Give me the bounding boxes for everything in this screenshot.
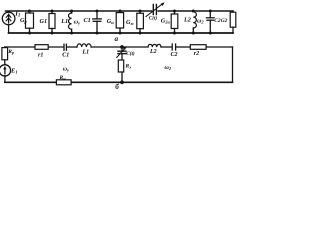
- resistor G2 (right edge): [230, 11, 236, 33]
- svg-text:E1: E1: [10, 68, 18, 75]
- resistor Gvx: [137, 11, 144, 33]
- wire top after L1 to L2: [91, 46, 148, 48]
- svg-text:C(t): C(t): [149, 15, 158, 22]
- wire top (bottom circuit) left: [5, 46, 35, 48]
- svg-text:r1: r1: [38, 52, 43, 58]
- capacitor C2 (shunt): [207, 11, 215, 33]
- resistor Gn: [116, 11, 123, 33]
- svg-text:L1: L1: [82, 50, 90, 56]
- resistor G1: [49, 11, 55, 33]
- node dot top rail L2: [192, 10, 195, 13]
- svg-text:Gм: Gм: [126, 19, 133, 26]
- svg-text:ωу: ωу: [74, 20, 80, 26]
- wire bottom rail (bottom circuit): [5, 81, 233, 83]
- node dot bottom rail C1: [96, 32, 99, 35]
- svg-text:C1: C1: [62, 52, 69, 58]
- node dot bottom rail Gn: [119, 32, 122, 35]
- node dot bottom rail G2a: [173, 32, 176, 35]
- svg-text:Rэ: Rэ: [125, 64, 132, 70]
- inductor L1 (series): [77, 44, 91, 47]
- svg-text:C2: C2: [171, 52, 178, 58]
- svg-text:ω2: ω2: [165, 65, 172, 71]
- node dot top rail Gvx: [139, 10, 142, 13]
- node dot top rail Gp: [28, 10, 31, 13]
- capacitor C1 (series): [64, 44, 66, 50]
- variable capacitor C(t) shunt: [117, 46, 127, 60]
- wire top after r2 to right corner: [206, 46, 232, 48]
- svg-text:ωу: ωу: [63, 66, 69, 72]
- wire right edge (bottom circuit): [232, 47, 234, 82]
- svg-text:L2: L2: [183, 16, 191, 23]
- resistor Rn (in bottom rail): [56, 80, 71, 85]
- node dot a (bottom circuit): [120, 45, 124, 49]
- EMF source E1: [0, 65, 11, 83]
- wire top after r1 to C1: [48, 46, 63, 48]
- resistor Gp: [26, 11, 34, 33]
- resistor G2a: [171, 11, 178, 33]
- inductor L1 (shunt coil): [69, 11, 72, 33]
- svg-text:Rн: Rн: [59, 75, 67, 81]
- wire bottom rail (top circuit): [9, 32, 233, 34]
- node dot bottom rail L2: [192, 32, 195, 35]
- node dot b: [120, 80, 124, 84]
- svg-text:C(t): C(t): [126, 50, 135, 57]
- resistor Rp: [2, 48, 8, 65]
- svg-text:ω2: ω2: [197, 19, 204, 25]
- svg-text:r2: r2: [194, 51, 199, 57]
- current source I1: [2, 12, 15, 33]
- resistor r1 (series): [35, 45, 48, 50]
- wire left edge top segment: [4, 46, 6, 49]
- resistor r2 (series): [190, 45, 206, 50]
- svg-text:G1: G1: [40, 18, 48, 25]
- node dot top rail G1: [51, 10, 54, 13]
- node dot bottom rail L1: [70, 32, 73, 35]
- wire top after C2 to r2: [177, 46, 191, 48]
- node dot top rail G2a: [173, 10, 176, 13]
- svg-text:L1: L1: [60, 18, 68, 25]
- node dot bottom rail C2: [209, 32, 212, 35]
- node dot top rail Gn: [119, 10, 122, 13]
- svg-text:G2а: G2а: [161, 18, 171, 25]
- node dot bottom rail Gvx: [139, 32, 142, 35]
- wire top after L2 to C2: [161, 46, 171, 48]
- svg-text:а: а: [115, 35, 119, 43]
- resistor Re: [118, 60, 123, 82]
- capacitor C2 (series): [172, 44, 175, 50]
- svg-text:G2: G2: [221, 18, 228, 24]
- variable capacitor C(t) series (top circuit): [146, 2, 165, 16]
- node dot bottom rail G1: [51, 32, 54, 35]
- wire top after C1 to L1: [68, 46, 78, 48]
- node dot top rail L1: [70, 10, 73, 13]
- svg-text:б: б: [115, 83, 119, 91]
- svg-text:Gр: Gр: [20, 17, 27, 24]
- svg-text:Rр: Rр: [7, 49, 14, 55]
- svg-text:Gн: Gн: [107, 18, 114, 25]
- node dot bottom rail Gp: [28, 32, 31, 35]
- wire top rail right segment (top circuit): [158, 10, 233, 12]
- capacitor C1 (shunt): [93, 11, 102, 33]
- node dot top rail C2: [209, 10, 212, 13]
- inductor L2 (shunt coil): [193, 11, 196, 33]
- wire top rail left segment (top circuit): [6, 10, 152, 12]
- svg-text:L2: L2: [149, 49, 157, 55]
- inductor L2 (series): [148, 44, 161, 47]
- node dot top rail C1: [96, 10, 99, 13]
- svg-text:C1: C1: [84, 17, 91, 24]
